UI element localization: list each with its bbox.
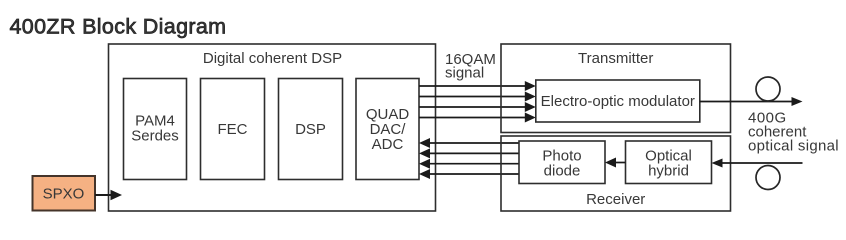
- block DSP: [279, 79, 343, 180]
- svg-text:400ZR Block Diagram: 400ZR Block Diagram: [10, 15, 227, 39]
- svg-text:ADC: ADC: [372, 136, 404, 153]
- svg-text:SPXO: SPXO: [43, 186, 85, 203]
- block FEC: [201, 79, 265, 180]
- svg-text:Digital coherent DSP: Digital coherent DSP: [203, 50, 342, 67]
- block PAM4 Serdes: [124, 79, 187, 180]
- svg-text:Transmitter: Transmitter: [578, 50, 653, 67]
- block Transmitter (container): [501, 44, 731, 133]
- wire photo diode to ADC line 4: [419, 169, 519, 179]
- block Digital coherent DSP (container): [109, 44, 436, 211]
- svg-text:hybrid: hybrid: [648, 163, 689, 180]
- wire receiver input: [712, 159, 803, 168]
- block Optical hybrid: [626, 141, 712, 184]
- block Electro-optic modulator: [536, 80, 700, 122]
- block Receiver (container): [501, 136, 731, 211]
- label 400G coherent optical signal: [748, 110, 839, 155]
- wire DAC to modulator line 4: [419, 113, 536, 123]
- wire DAC to modulator line 1: [419, 81, 536, 91]
- block Photo diode: [519, 141, 605, 184]
- svg-text:optical signal: optical signal: [748, 138, 839, 155]
- fiber loop top: [756, 77, 780, 101]
- svg-text:Serdes: Serdes: [131, 128, 179, 145]
- label 16QAM signal: [445, 51, 496, 82]
- block QUAD DAC/ADC: [356, 79, 419, 180]
- wire photo diode to ADC line 1: [419, 138, 519, 148]
- wire photo diode to ADC line 3: [419, 159, 519, 169]
- svg-text:FEC: FEC: [218, 121, 248, 138]
- wire photo diode to ADC line 2: [419, 148, 519, 158]
- svg-text:Electro-optic modulator: Electro-optic modulator: [541, 93, 695, 110]
- wire DAC to modulator line 3: [419, 102, 536, 112]
- svg-text:DSP: DSP: [295, 121, 326, 138]
- wire DAC to modulator line 2: [419, 92, 536, 102]
- svg-text:signal: signal: [445, 65, 484, 82]
- wire optical hybrid to photo diode: [605, 158, 626, 168]
- wire SPXO to DSP container (arrow): [95, 190, 122, 201]
- block SPXO: [33, 176, 96, 211]
- svg-text:diode: diode: [544, 163, 581, 180]
- svg-text:Receiver: Receiver: [586, 191, 645, 208]
- wire modulator output: [700, 97, 803, 106]
- fiber loop bottom: [756, 166, 780, 190]
